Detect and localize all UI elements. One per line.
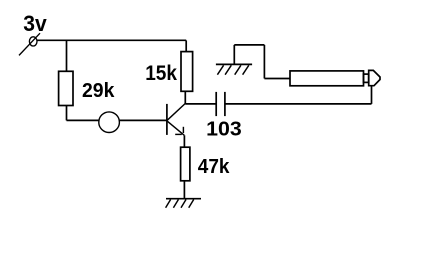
wire to jack body — [264, 78, 290, 80]
battery terminal — [19, 33, 40, 55]
svg-text:15k: 15k — [145, 62, 177, 85]
wire down to 15k — [185, 40, 187, 51]
ground GND2 — [216, 64, 252, 74]
resistor R2 15k — [145, 52, 192, 92]
svg-text:29k: 29k — [82, 80, 115, 102]
wire ground up — [233, 45, 235, 65]
wire 47k to ground — [183, 181, 185, 199]
wire capacitor to jack tip — [225, 103, 372, 105]
svg-text:47k: 47k — [198, 156, 231, 178]
svg-text:3v: 3v — [23, 11, 47, 36]
transistor Q1 — [167, 104, 185, 136]
wire emitter down — [183, 135, 185, 147]
wire top rail — [37, 39, 186, 41]
wire up to tip — [371, 86, 373, 104]
wire collector to capacitor — [185, 103, 216, 105]
wire ground top horizontal — [234, 44, 264, 46]
wire below 29k — [66, 106, 68, 121]
microphone MIC1 — [99, 112, 120, 133]
resistor R3 47k — [181, 147, 231, 181]
wire 15k to collector — [184, 91, 186, 104]
wire base right — [119, 119, 167, 121]
wire 29k branch — [66, 40, 68, 71]
wire base left — [67, 119, 100, 121]
wire down to jack sleeve — [263, 45, 265, 79]
resistor R1 29k — [59, 71, 116, 105]
capacitor C1 103 — [206, 92, 242, 140]
svg-text:103: 103 — [206, 118, 242, 140]
ground GND1 — [166, 199, 201, 208]
jack J1 plug — [290, 70, 380, 85]
